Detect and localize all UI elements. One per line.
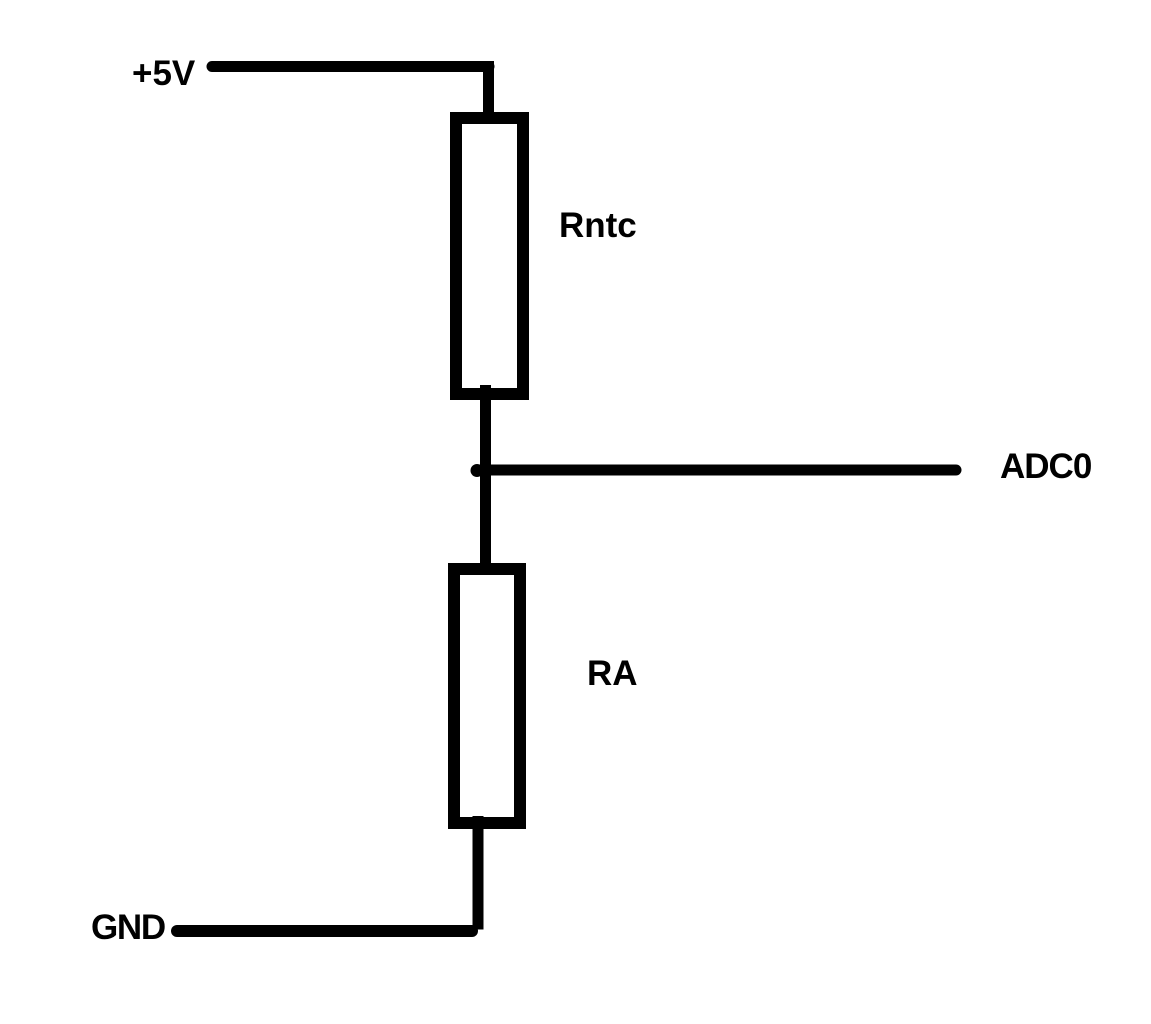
svg-text:RA: RA [587,654,638,693]
svg-text:Rntc: Rntc [559,206,637,245]
svg-text:ADC0: ADC0 [1000,447,1092,486]
svg-text:GND: GND [91,908,165,947]
svg-text:+5V: +5V [132,54,196,93]
